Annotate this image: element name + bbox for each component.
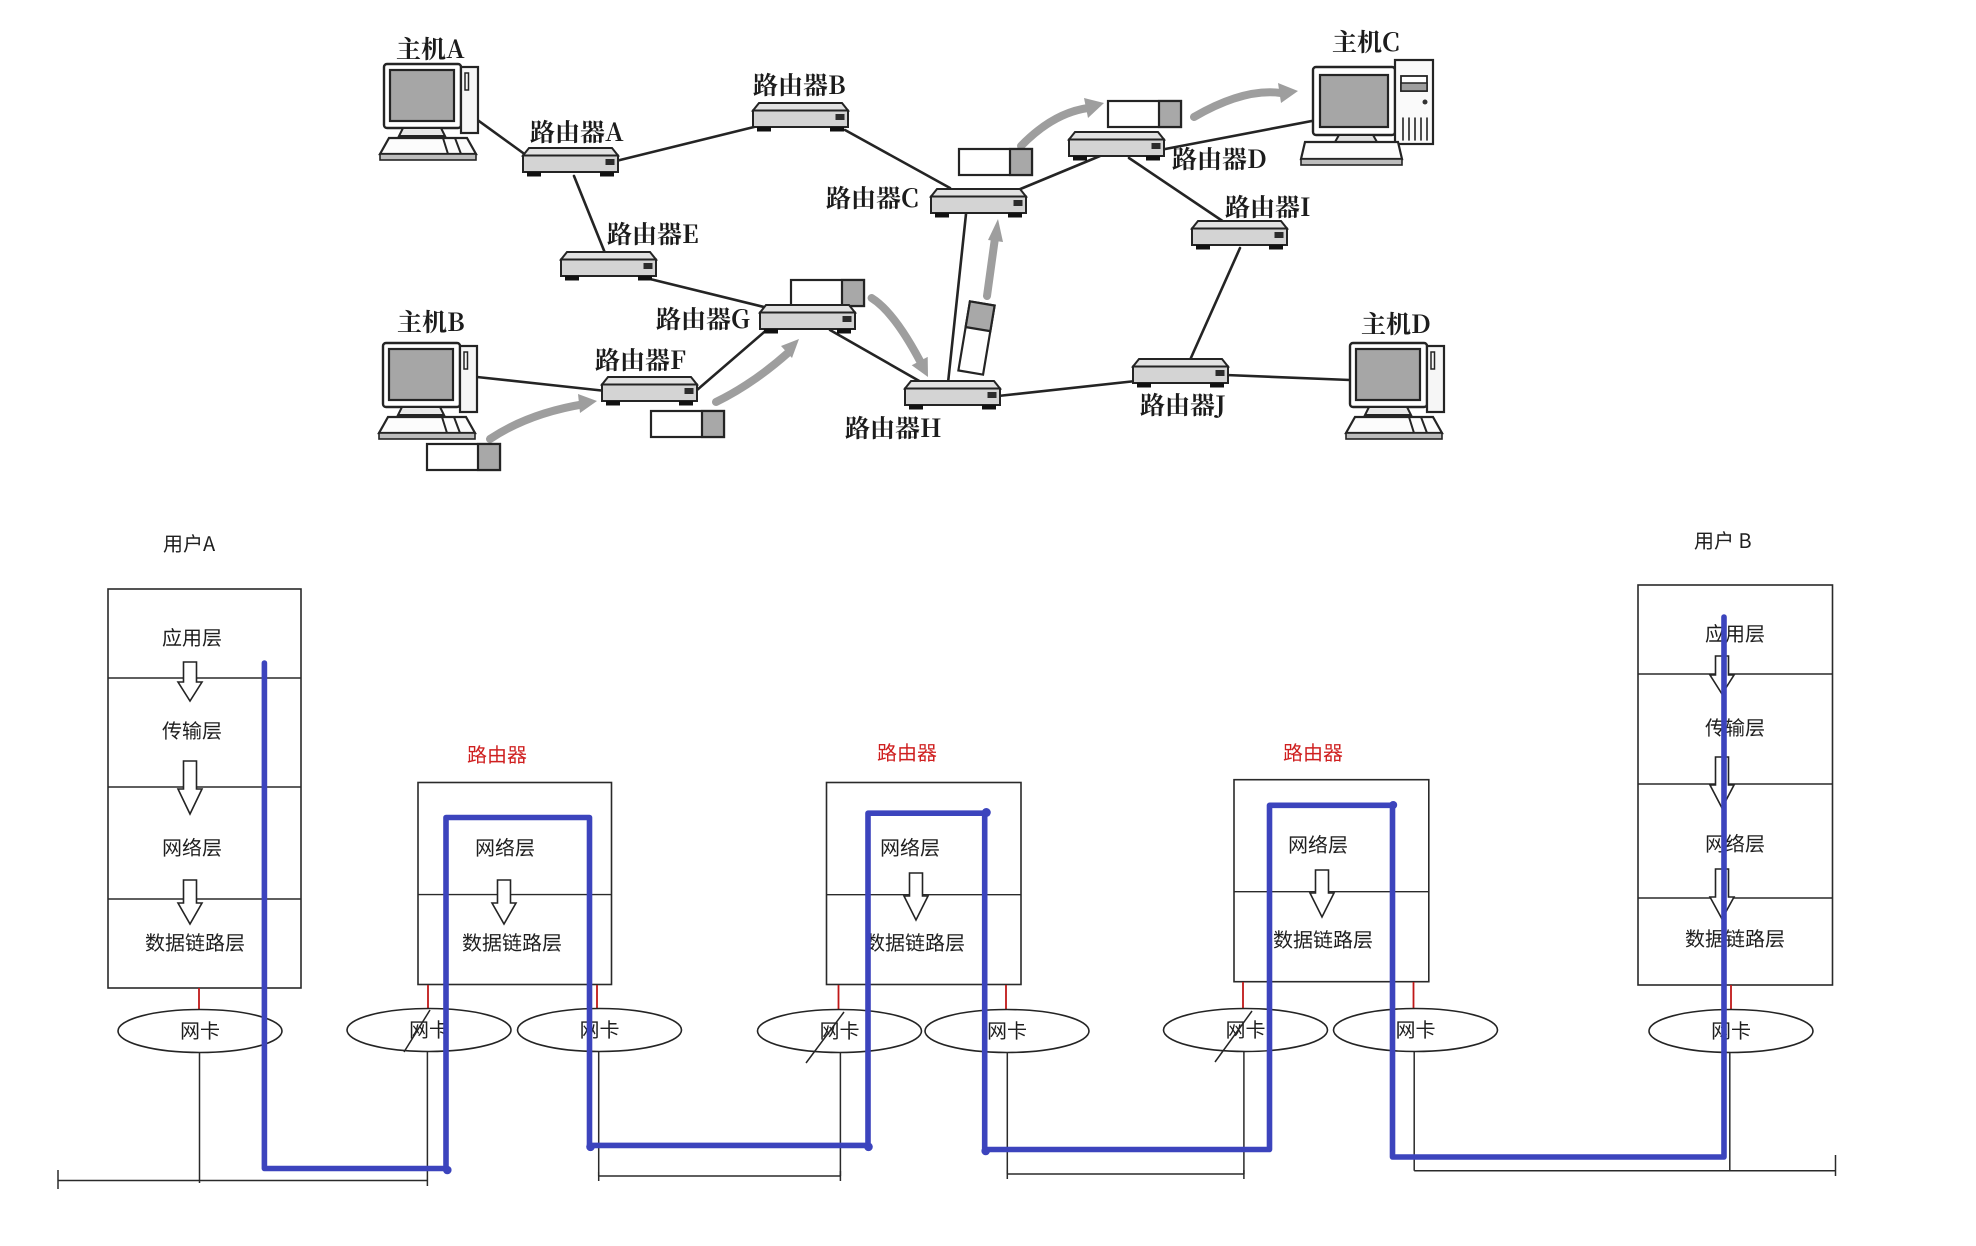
wire routerC-routerH xyxy=(948,214,966,383)
stack userB arrow1 xyxy=(1710,656,1734,694)
red tick router2 left xyxy=(838,985,840,1009)
label routerF xyxy=(595,348,685,372)
router F xyxy=(602,377,697,406)
blue dot r2 top right xyxy=(982,808,991,817)
drop line router1 left xyxy=(426,1052,428,1186)
nic oval router1 left xyxy=(347,1009,511,1052)
stack userB divider1 xyxy=(1638,673,1833,675)
router1 label xyxy=(468,745,527,763)
router2 label xyxy=(878,743,937,761)
red tick userA xyxy=(198,988,200,1010)
router1 texts xyxy=(477,838,534,857)
router3 texts xyxy=(1290,835,1347,854)
stack userA arrow1 xyxy=(178,662,202,701)
red tick router2 right xyxy=(1005,985,1007,1009)
drop line userA xyxy=(199,1052,201,1183)
wire routerF-routerG xyxy=(697,327,770,390)
nic oval router2 left xyxy=(758,1010,922,1053)
wire routerD-hostC xyxy=(1160,116,1338,150)
packet above routerG xyxy=(791,280,864,306)
stack userB arrow3 xyxy=(1710,869,1734,919)
bus segment 3 xyxy=(1007,1173,1244,1175)
nic oval userA xyxy=(118,1010,282,1053)
router G xyxy=(760,305,855,334)
bus segment 1 xyxy=(58,1180,427,1182)
wire routerE-routerG xyxy=(650,279,768,308)
router2 divider xyxy=(827,894,1022,896)
router E xyxy=(561,252,656,281)
label hostB xyxy=(398,310,464,334)
label routerJ xyxy=(1140,393,1224,418)
wire hostA-routerA xyxy=(472,116,530,158)
drop line router1 right xyxy=(598,1052,600,1176)
host A xyxy=(380,64,478,160)
router3 box xyxy=(1234,780,1429,982)
stack userA arrow3 xyxy=(178,880,202,924)
host B xyxy=(379,343,477,439)
router3 divider xyxy=(1234,891,1429,893)
drop line router3 left xyxy=(1243,1052,1245,1174)
label routerI xyxy=(1225,195,1309,219)
arrow routerC to routerD xyxy=(1021,108,1088,146)
blue dot r1 right bottom xyxy=(586,1143,595,1152)
label hostA xyxy=(397,37,465,61)
drop line router2 right xyxy=(1006,1052,1008,1174)
host D xyxy=(1346,343,1444,439)
router H xyxy=(905,381,1000,410)
stack userB arrow2 xyxy=(1710,757,1734,808)
arrow routerD to hostC xyxy=(1194,92,1281,117)
bus2 end ticks xyxy=(598,1172,600,1181)
packet vertical near routerH xyxy=(958,301,994,374)
nic oval router3 left xyxy=(1164,1009,1328,1052)
bus segment 2 xyxy=(599,1175,841,1177)
router1 box xyxy=(418,783,612,985)
label routerC xyxy=(826,186,917,210)
wire hostB-routerF xyxy=(477,377,606,391)
red tick router3 left xyxy=(1242,982,1244,1008)
bus3 end ticks xyxy=(1006,1170,1008,1179)
label routerG xyxy=(656,307,749,331)
nic oval router2 right xyxy=(925,1010,1089,1053)
slash router1 left xyxy=(404,1010,430,1052)
router B xyxy=(753,103,848,132)
stack userA arrow2 xyxy=(178,761,202,814)
nic oval userB xyxy=(1649,1010,1813,1053)
arrow hostB to routerF xyxy=(490,404,585,439)
wire routerA-routerB xyxy=(616,126,758,161)
packet above routerD xyxy=(1108,101,1181,127)
bus segment 4 xyxy=(1414,1170,1835,1172)
stack userB divider2 xyxy=(1638,783,1833,785)
router1 divider xyxy=(418,894,612,896)
label routerB xyxy=(753,73,844,97)
arrow routerG to routerH xyxy=(872,298,920,361)
router D xyxy=(1069,132,1164,161)
router C xyxy=(931,189,1026,218)
packet under hostB xyxy=(427,444,500,470)
red tick router1 right xyxy=(596,985,598,1009)
label hostC xyxy=(1333,30,1399,54)
red tick router1 left xyxy=(427,985,429,1009)
wire routerG-routerH xyxy=(830,330,921,382)
slash router2 left xyxy=(806,1012,844,1063)
slash router3 left xyxy=(1215,1011,1252,1062)
stack userB box xyxy=(1638,585,1833,985)
arrow routerH to routerC xyxy=(987,238,995,296)
arrow routerF to routerG xyxy=(716,352,789,402)
router3 label xyxy=(1284,743,1343,761)
stack userA divider1 xyxy=(108,677,301,679)
router1 arrow xyxy=(492,880,516,924)
label routerH xyxy=(845,416,940,440)
drop line router3 right xyxy=(1413,1052,1415,1171)
blue dot r3 top right xyxy=(1389,801,1397,809)
stack userA divider3 xyxy=(108,898,301,900)
wire routerA-routerE xyxy=(574,176,605,253)
blue dot r2 right bottom xyxy=(981,1147,990,1156)
nic oval router3 right xyxy=(1334,1009,1498,1052)
blue dot seg1 right xyxy=(443,1166,452,1175)
stack userB divider3 xyxy=(1638,897,1833,899)
blue data path xyxy=(264,617,1724,1169)
nic oval router1 right xyxy=(518,1009,682,1052)
bus4 right tick xyxy=(1835,1155,1837,1176)
stack userA box xyxy=(108,589,301,988)
label routerA xyxy=(530,120,623,144)
wire routerB-routerC xyxy=(845,130,950,188)
stack userA layer texts xyxy=(163,628,221,647)
router J xyxy=(1133,359,1228,388)
router I xyxy=(1192,221,1287,250)
router3 arrow xyxy=(1310,870,1334,917)
red tick userB xyxy=(1730,985,1732,1010)
label userA xyxy=(164,534,216,553)
blue dot r2 left bottom xyxy=(864,1143,873,1152)
label hostD xyxy=(1362,312,1430,336)
label routerD xyxy=(1172,147,1265,171)
wire routerH-routerJ xyxy=(998,381,1136,396)
wire routerI-routerJ xyxy=(1190,248,1240,360)
drop line userB xyxy=(1729,1052,1731,1171)
stack userB layer texts xyxy=(1706,624,1764,643)
red tick router3 right xyxy=(1413,982,1415,1008)
router2 texts xyxy=(882,838,939,857)
drop line router2 left xyxy=(839,1052,841,1176)
router2 arrow xyxy=(904,873,928,920)
packet under routerF xyxy=(651,411,724,437)
stack userA divider2 xyxy=(108,786,301,788)
bus1 left tick xyxy=(57,1170,59,1189)
router2 box xyxy=(827,783,1022,985)
router A xyxy=(523,148,618,177)
host C xyxy=(1301,60,1433,165)
label routerE xyxy=(607,222,697,246)
wire routerC-routerD xyxy=(1018,156,1100,190)
wire routerD-routerI xyxy=(1129,158,1224,222)
packet above routerC xyxy=(959,149,1032,175)
wire routerJ-hostD xyxy=(1226,375,1350,380)
label userB xyxy=(1695,531,1751,550)
